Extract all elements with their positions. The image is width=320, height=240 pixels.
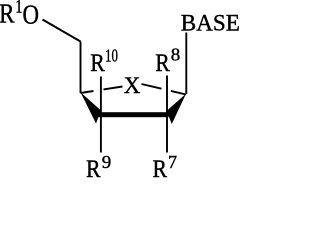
svg-text:9: 9 <box>102 152 112 172</box>
node R1O label <box>0 0 39 30</box>
svg-text:R: R <box>86 156 101 178</box>
wire R10 to C3 to R9 vertical <box>100 77 102 153</box>
wire BASE down to C1 vertex <box>185 33 187 95</box>
node R8 label <box>155 45 180 77</box>
svg-text:R: R <box>90 50 105 77</box>
wedge bond C1 to C2 <box>167 94 187 124</box>
svg-text:1: 1 <box>15 0 22 17</box>
svg-text:10: 10 <box>105 46 118 66</box>
node R7 label <box>153 152 178 183</box>
wire CH2 bend down to C4 vertex <box>80 42 82 94</box>
svg-text:8: 8 <box>171 45 181 65</box>
svg-text:X: X <box>124 73 141 98</box>
svg-text:R: R <box>0 0 15 29</box>
wire O to CH2 bend <box>43 20 81 42</box>
svg-text:R: R <box>155 50 170 77</box>
bold bond C3 to C2 <box>99 112 169 117</box>
svg-text:BASE: BASE <box>181 11 240 36</box>
wire X to C1 (broken at crossing) <box>142 84 162 89</box>
wire C4 to X (broken at crossing) <box>81 91 94 93</box>
wire R8 to C2 to R7 vertical <box>166 76 168 153</box>
svg-text:O: O <box>23 0 40 30</box>
wedge bond C4 to C3 <box>81 92 102 123</box>
node R9 label <box>86 152 111 183</box>
svg-text:R: R <box>153 156 168 178</box>
node R10 label <box>90 46 118 77</box>
svg-text:7: 7 <box>168 152 177 172</box>
